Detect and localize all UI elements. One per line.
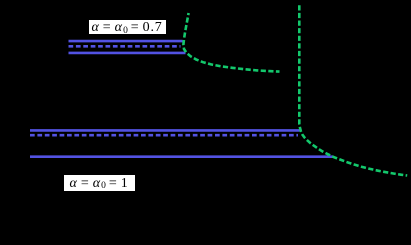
top dashed blue line (alpha=0.7 branch) <box>69 45 181 48</box>
green dashed curve (alpha=1) <box>299 5 407 175</box>
label box: alpha = alpha_0 = 0.7 <box>88 19 167 35</box>
bottom dashed blue line (alpha=1 branch) <box>30 134 298 137</box>
top solid blue line (upper, alpha=0.7 branch) <box>69 40 183 43</box>
top solid blue line (lower, alpha=0.7 branch) <box>69 52 186 55</box>
bottom solid blue line (upper, alpha=1 branch) <box>30 129 300 132</box>
bottom solid blue line (lower, alpha=1 branch) <box>30 155 333 158</box>
label box: alpha = alpha_0 = 1 <box>63 174 136 192</box>
green dashed curve (alpha=0.7) <box>183 13 279 72</box>
